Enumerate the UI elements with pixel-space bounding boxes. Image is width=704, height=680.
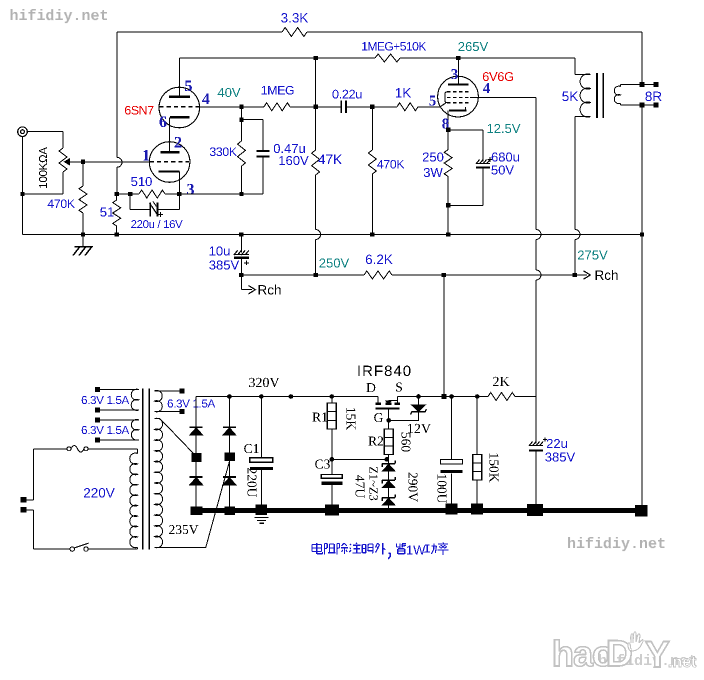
label D xyxy=(367,383,376,392)
wire tap down xyxy=(315,58,317,107)
wire OPT primary to B+ xyxy=(574,117,576,230)
label 47U xyxy=(355,475,364,498)
rectifier bridge pad AC1 xyxy=(191,453,201,462)
label 5K xyxy=(562,92,578,101)
OPT core xyxy=(596,73,598,118)
wire plate rail xyxy=(180,57,375,59)
pad bridge left xyxy=(191,507,203,516)
node secondary gnd rail xyxy=(640,232,644,236)
wire bias node xyxy=(332,458,387,460)
label C1 xyxy=(244,444,258,453)
mosfet Q1 gate plate xyxy=(376,408,400,410)
capacitor 220u/16V bypass loop xyxy=(129,194,131,210)
label 12V xyxy=(408,424,431,433)
6V6 pin5 lead xyxy=(440,103,446,107)
capacitor C3 47U xyxy=(331,459,333,474)
arrow Rch right xyxy=(575,274,587,276)
wire gate to zener xyxy=(389,419,420,421)
V1b cathode bar xyxy=(170,116,190,118)
zener stack Z1-Z3 xyxy=(388,459,390,463)
resistor 47K xyxy=(315,107,317,150)
node source riser xyxy=(441,394,446,399)
pin 2 label xyxy=(175,137,182,148)
pin 4 label 6V6 xyxy=(483,83,490,93)
wire source rail xyxy=(397,396,488,398)
label 220V xyxy=(84,488,115,498)
label 8R xyxy=(645,92,661,102)
wire hop feedback over grid wire xyxy=(117,157,122,167)
node R1 top xyxy=(330,394,335,399)
pin 5 label 6V6 xyxy=(429,96,435,106)
wire feedback top rail xyxy=(117,31,282,33)
capacitor 100U xyxy=(451,397,453,460)
label 10u xyxy=(210,246,230,255)
resistor 470K input xyxy=(82,162,84,186)
6V6 grid left bus xyxy=(445,92,450,103)
V1a plate bar xyxy=(161,151,180,153)
label 385V 22u xyxy=(545,452,575,461)
resistor 1MEG xyxy=(242,106,265,108)
node pot bottom xyxy=(20,192,24,196)
pin 1 label xyxy=(143,150,149,161)
node 150K top xyxy=(475,394,480,399)
PT 6.3V winding 1 xyxy=(95,387,100,392)
PT HV winding 235V xyxy=(155,418,163,547)
wire plug bottom xyxy=(27,509,34,511)
label 250V xyxy=(319,258,349,267)
label 22u xyxy=(547,439,567,448)
wire pin3 row xyxy=(179,193,263,195)
pad 22u gnd xyxy=(527,504,543,516)
node coupling junction xyxy=(313,105,317,109)
resistor 51 xyxy=(116,194,118,200)
label 15K xyxy=(346,408,355,430)
pot wiper arrow xyxy=(70,161,83,163)
label R2 xyxy=(369,437,384,446)
label 22u plus xyxy=(543,439,547,441)
wire jack to pot xyxy=(27,131,63,133)
PT 6.3V winding 2 xyxy=(95,417,100,422)
ground bus xyxy=(191,508,648,513)
6V6 plate bar xyxy=(448,83,469,85)
node zener top xyxy=(416,394,421,399)
pin 3 label xyxy=(187,184,194,195)
V1b grid dashed xyxy=(160,106,201,108)
label 6.3V 1.5A w3 xyxy=(168,399,216,407)
label 100U xyxy=(437,475,446,504)
label 160V xyxy=(279,156,308,165)
node 0.47u tap xyxy=(239,118,243,122)
mosfet Q1 gate lead xyxy=(388,409,390,421)
node 100u top xyxy=(449,394,454,399)
pin 4 label xyxy=(202,93,209,104)
wire HV top to bridge xyxy=(155,418,160,420)
capacitor 680u/50V xyxy=(448,129,483,131)
resistor 250 3W xyxy=(447,130,449,150)
label 6V6G xyxy=(483,72,513,81)
label 220u/16V xyxy=(131,220,182,228)
wire 320V rail xyxy=(196,396,378,398)
label 6SN7 xyxy=(125,106,154,115)
node bridge+ xyxy=(227,394,232,399)
node 51 bottom xyxy=(115,232,119,236)
6V6 grid1 dashed xyxy=(447,91,470,93)
capacitor C1 220u xyxy=(260,397,262,458)
input jack xyxy=(18,127,28,137)
node B+ riser top xyxy=(442,273,446,277)
switch xyxy=(70,547,74,551)
node cathode junction xyxy=(115,192,119,196)
note text 1W power xyxy=(316,543,318,554)
capacitor 22u/385V xyxy=(535,397,537,444)
terminal 8R top xyxy=(640,82,645,87)
rectifier D2 xyxy=(195,462,197,477)
PT 6.3V winding right xyxy=(180,388,185,393)
label 385V xyxy=(209,260,239,269)
resistor 510 xyxy=(139,190,165,198)
wire pot wiper to grid xyxy=(83,161,150,163)
label R1 xyxy=(313,413,328,422)
label 290V xyxy=(408,473,417,502)
pin 3 label 6V6 xyxy=(451,69,457,79)
label 50V xyxy=(491,165,514,174)
capacitor 10u/385V xyxy=(239,232,243,236)
resistor R1 15K xyxy=(331,397,333,404)
resistor R2 560 xyxy=(388,420,390,429)
label 220U xyxy=(247,468,256,497)
label 560 xyxy=(401,433,410,452)
label 12.5V xyxy=(488,124,521,133)
V1a plate lead xyxy=(169,117,171,152)
6V6 grid2 dashed xyxy=(447,97,470,99)
pin 5 label xyxy=(185,81,192,92)
wire cathode node xyxy=(117,193,139,195)
node 6V6 plate xyxy=(456,56,460,60)
6V6 screen lead xyxy=(470,97,536,99)
label Z1~Z3 xyxy=(369,467,377,500)
pad bus end xyxy=(635,505,648,517)
6V6 cathode bar xyxy=(449,109,467,111)
wire 47K to 250V rail xyxy=(315,239,317,275)
pad 150K gnd xyxy=(471,504,483,515)
watermark haoboY xyxy=(599,654,696,668)
node rail spare xyxy=(289,394,294,399)
label C3 xyxy=(315,460,330,469)
wire cathode to gnd xyxy=(447,205,449,234)
6V6 plate lead xyxy=(457,58,459,85)
V1b cathode lead to V1a plate xyxy=(169,117,171,152)
6V6 grid3 dashed xyxy=(447,102,470,104)
wire grid junction down xyxy=(241,107,243,141)
node 470K-2 bottom xyxy=(370,232,374,236)
6V6 cathode lead xyxy=(447,111,449,130)
wire screen drop xyxy=(535,98,537,230)
resistor 1K xyxy=(372,106,397,108)
PT primary 220V winding xyxy=(137,449,139,454)
pad C1 gnd xyxy=(256,505,268,516)
wire 250V rail xyxy=(241,274,364,276)
V1b plate bar xyxy=(169,96,190,98)
resistor 330K xyxy=(238,141,246,166)
wire fuse to primary xyxy=(88,448,138,450)
triode V1a circle xyxy=(149,142,190,183)
node gate xyxy=(386,418,391,423)
OPT primary bottom lead xyxy=(575,116,591,118)
pin 8 label 6V6 xyxy=(442,119,449,129)
capacitor 0.47u/160V xyxy=(242,119,264,121)
wire HV bottom to bridge xyxy=(155,546,206,548)
wire feedback drop to cathode node xyxy=(116,167,118,194)
label 320V xyxy=(249,378,279,388)
V1b plate lead xyxy=(179,58,181,97)
node pot wiper xyxy=(81,160,85,164)
wire plate rail corner down xyxy=(574,58,576,75)
watermark hifidiy.net top-left xyxy=(11,9,108,23)
OPT secondary top lead xyxy=(621,84,643,86)
V1a grid dashed xyxy=(150,161,189,163)
V1a cathode bar xyxy=(159,170,180,172)
label 275V xyxy=(578,250,608,259)
terminal 8R bottom xyxy=(640,103,645,108)
node pin8 xyxy=(446,128,450,132)
rectifier bridge pad AC2 xyxy=(224,453,234,462)
wire B+ riser xyxy=(443,275,445,397)
resistor 3.3K xyxy=(282,28,307,37)
watermark hifidiy.net bottom-right xyxy=(568,537,665,551)
label 6.3V 1.5A w1 xyxy=(82,396,130,404)
pad bridge right xyxy=(224,507,234,516)
node cathode gnd xyxy=(446,232,450,236)
V1b grid lead xyxy=(200,106,242,108)
rectifier D3 xyxy=(228,397,230,428)
node grid junction xyxy=(239,105,243,109)
mosfet Q1 source lead xyxy=(396,397,398,404)
node pin3 xyxy=(177,192,181,196)
pad 100u gnd xyxy=(446,504,458,515)
node 470K bottom xyxy=(81,232,85,236)
node plate rail tap xyxy=(313,56,317,60)
node 47K bottom xyxy=(313,273,317,277)
wire feedback left drop xyxy=(116,32,118,158)
wire feedback from secondary xyxy=(641,32,643,85)
resistor 6.2K xyxy=(364,271,392,279)
node C1 top xyxy=(259,394,264,399)
label 100KohmA xyxy=(39,147,47,188)
resistor 1MEG+510K xyxy=(375,54,400,62)
rectifier D4 xyxy=(228,461,230,477)
label 0.47u xyxy=(274,144,305,153)
rectifier D1 xyxy=(195,397,197,428)
ground symbol chassis xyxy=(82,235,84,247)
capacitor 220u plates xyxy=(149,203,151,217)
node B+ 275V xyxy=(573,273,577,277)
OPT secondary winding xyxy=(620,85,622,87)
label 40V xyxy=(218,88,241,97)
node 470K-2 top xyxy=(370,105,374,109)
pad C3 gnd xyxy=(325,505,339,516)
OPT primary winding 5K xyxy=(580,74,590,117)
pin 6 label xyxy=(160,116,167,127)
capacitor 0.22u xyxy=(316,106,342,108)
resistor 470K grid 6V6 xyxy=(371,107,373,150)
label 6.3V 1.5A w2 xyxy=(82,426,130,434)
zener 12V xyxy=(418,397,420,405)
label 265V xyxy=(458,42,488,51)
node bias xyxy=(385,457,390,462)
label 235V xyxy=(169,525,198,534)
triode V1b circle xyxy=(159,87,200,128)
resistor 2K xyxy=(488,393,515,401)
tube 6V6 circle xyxy=(438,76,479,117)
potentiometer 100K&#937;A xyxy=(62,132,64,148)
OPT primary top lead xyxy=(575,74,591,76)
label 150K xyxy=(489,454,498,483)
mains plug prongs xyxy=(20,497,26,502)
mosfet Q1 drain lead xyxy=(377,397,379,404)
wire plug top xyxy=(27,499,34,501)
V1a cathode lead xyxy=(178,172,180,195)
node 330K bottom xyxy=(239,192,243,196)
wire signal ground rail xyxy=(23,234,643,236)
node 10u bottom xyxy=(239,273,243,277)
OPT secondary bottom lead xyxy=(621,104,643,106)
earth ground xyxy=(255,517,269,519)
node 510 left xyxy=(128,192,132,196)
mosfet Q1 body arrow xyxy=(385,400,393,404)
label 680u xyxy=(492,152,519,161)
label G xyxy=(374,413,383,422)
fuse xyxy=(67,447,71,451)
node cathode bottom xyxy=(446,203,450,207)
node R1 bottom xyxy=(330,457,335,462)
wire hop 47K over gnd xyxy=(316,230,321,240)
wire jack sleeve down xyxy=(22,137,24,235)
wire switch to primary xyxy=(88,548,137,550)
label IRF840 xyxy=(358,366,410,377)
resistor 150K xyxy=(476,397,478,455)
arrow Rch left xyxy=(240,275,242,290)
PT core xyxy=(142,389,144,550)
label S xyxy=(396,383,402,392)
wire secondary to ground bus xyxy=(641,105,643,505)
